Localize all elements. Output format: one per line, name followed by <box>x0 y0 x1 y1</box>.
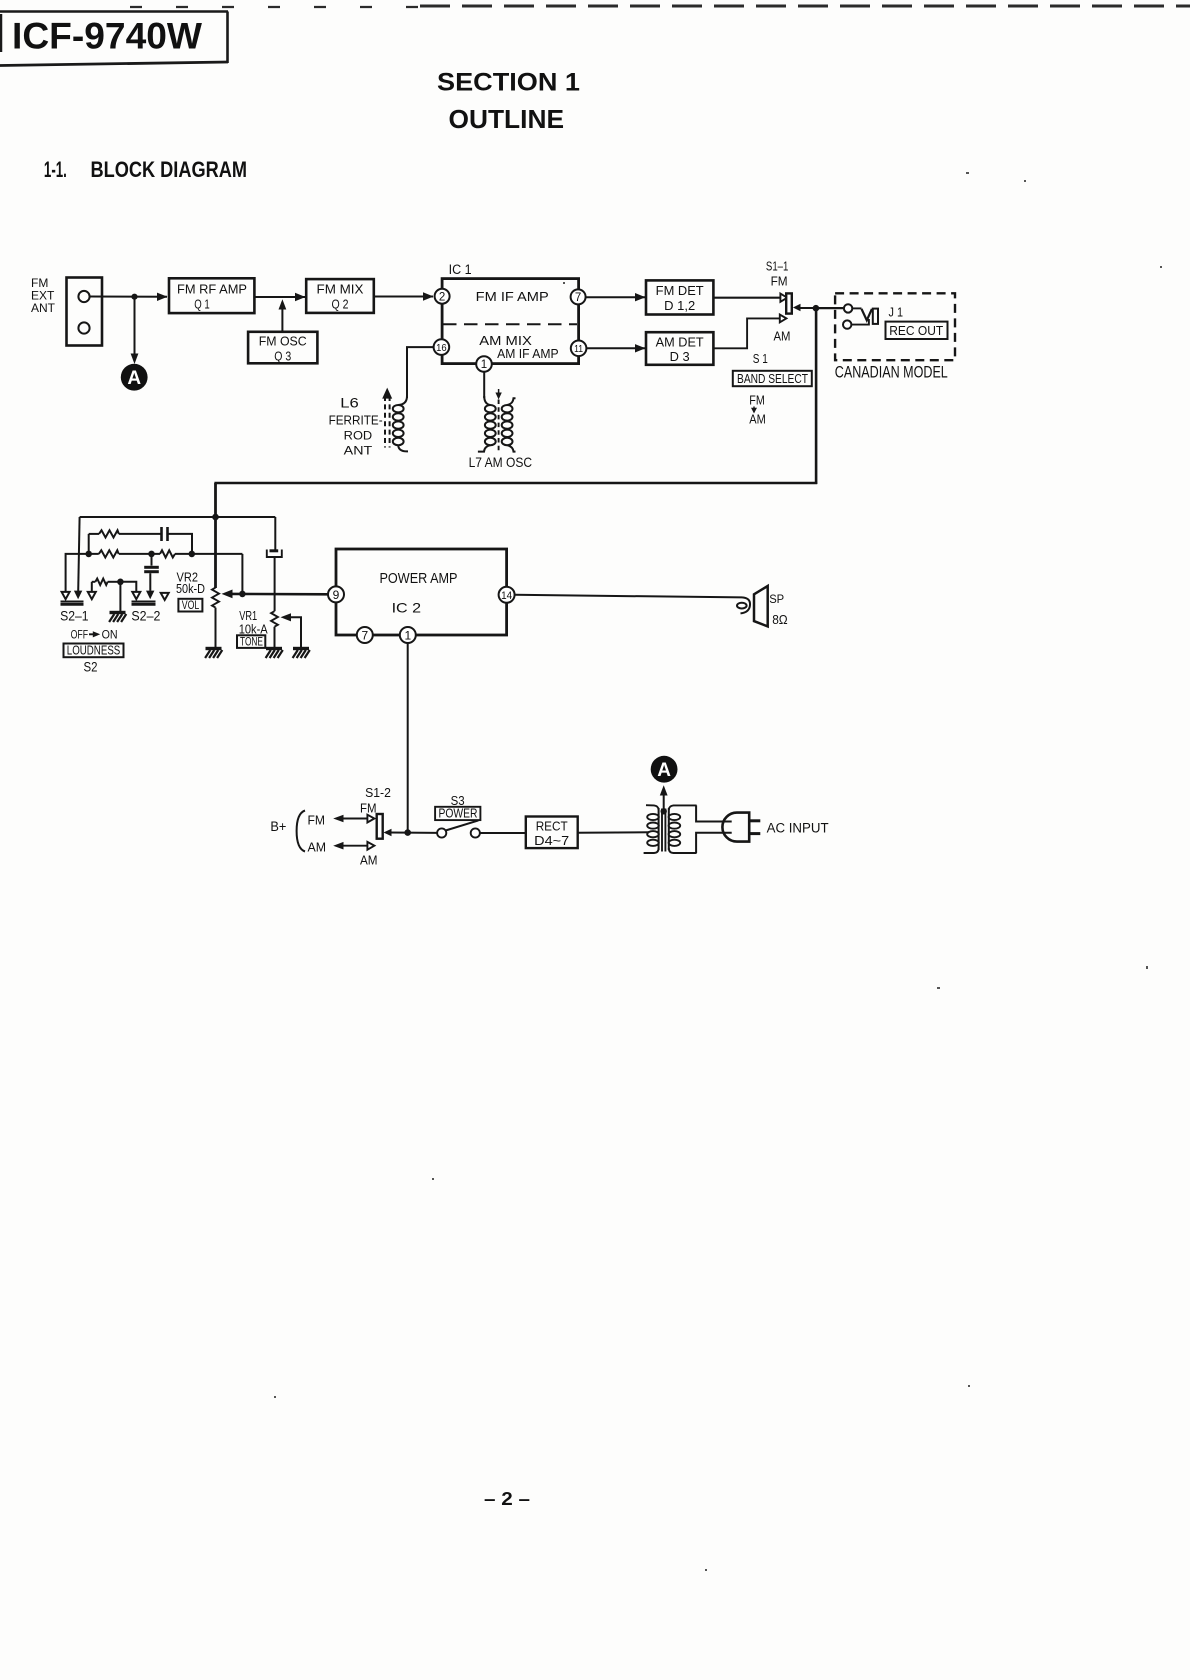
svg-text:J 1: J 1 <box>889 306 904 320</box>
ground (VR2) <box>205 649 222 659</box>
VR2 wiper arrow <box>222 590 233 599</box>
L7 tuning core (dashed) <box>498 400 500 452</box>
transformer L7 secondary <box>502 398 516 451</box>
svg-text:BLOCK DIAGRAM: BLOCK DIAGRAM <box>91 157 248 182</box>
switch S2-2 <box>132 591 169 605</box>
label BAND SELECT box <box>733 371 812 386</box>
svg-text:Q 2: Q 2 <box>332 298 349 312</box>
svg-text:REC OUT: REC OUT <box>889 324 943 338</box>
svg-text:ROD: ROD <box>344 429 373 443</box>
svg-text:FM IF AMP: FM IF AMP <box>476 289 549 304</box>
svg-text:IC 2: IC 2 <box>392 599 422 615</box>
ground (VR1) <box>266 649 283 659</box>
svg-text:FM: FM <box>360 801 377 816</box>
wire arrow to AM supply <box>333 842 367 850</box>
label TONE box <box>237 635 265 649</box>
wire row1 left segment <box>89 533 99 535</box>
title box ICF-9740W <box>0 12 228 66</box>
secondary output bracket <box>696 805 732 821</box>
transformer T primary winding <box>644 805 659 853</box>
J1 sleeve terminal circle <box>843 320 851 328</box>
svg-text:D 3: D 3 <box>670 350 690 364</box>
svg-text:FM DET: FM DET <box>656 284 704 298</box>
svg-text:LOUDNESS: LOUDNESS <box>67 644 121 658</box>
svg-text:S2–2: S2–2 <box>131 608 160 623</box>
svg-text:1: 1 <box>481 359 487 371</box>
svg-text:OFF: OFF <box>71 628 89 642</box>
svg-text:L7 AM OSC: L7 AM OSC <box>469 454 532 470</box>
wire bias node to ground <box>119 582 121 612</box>
svg-text:VOL: VOL <box>182 598 200 612</box>
svg-text:ANT: ANT <box>344 444 373 458</box>
wire VR1 to ground <box>274 627 276 647</box>
wire junction to J1 tip contact <box>816 307 844 309</box>
block FM OSC Q3 <box>248 332 317 364</box>
B+ brace <box>297 811 305 852</box>
svg-text:9: 9 <box>333 588 340 602</box>
svg-text:50k-D: 50k-D <box>176 582 205 596</box>
scan specks <box>274 172 1162 1571</box>
switch S2-1 <box>61 591 84 605</box>
wire row2 mid <box>119 553 160 555</box>
switch S1-1 slider <box>786 293 792 313</box>
wire S1-2 to S3 <box>390 832 437 834</box>
wire junction down to audio bus <box>815 308 818 484</box>
svg-text:L6: L6 <box>340 396 359 411</box>
block RECT D4~7 <box>526 817 578 849</box>
svg-text:BAND SELECT: BAND SELECT <box>737 372 808 386</box>
wire FM OSC injection arrow <box>279 299 287 332</box>
wire row1 to capacitor <box>119 533 161 535</box>
svg-text:11: 11 <box>574 343 583 355</box>
svg-text:ICF-9740W: ICF-9740W <box>12 16 202 57</box>
wire arrow to FM supply <box>333 815 367 823</box>
switch S3 <box>437 820 480 837</box>
svg-text:1-1.: 1-1. <box>44 157 67 182</box>
svg-text:B+: B+ <box>270 819 286 834</box>
IC2 pin 1 <box>400 627 416 643</box>
block FM DET D1,2 <box>646 280 713 314</box>
AC plug <box>722 813 760 842</box>
label POWER box <box>435 807 480 821</box>
svg-text:16: 16 <box>436 342 447 354</box>
S1-2 wiper arrow <box>384 829 392 837</box>
svg-text:S3: S3 <box>451 794 465 808</box>
potentiometer VR2 <box>212 588 219 608</box>
secondary output bracket lower <box>696 833 732 853</box>
svg-text:S 1: S 1 <box>753 352 768 366</box>
svg-text:POWER AMP: POWER AMP <box>380 570 458 587</box>
resistor (loudness R row1) <box>99 530 119 537</box>
IC1 pin 1 <box>476 356 492 372</box>
svg-text:FM: FM <box>771 274 788 288</box>
IC1 pin 16 <box>434 339 450 355</box>
jack J1 contacts <box>851 308 878 324</box>
resistor (S2 bias R) <box>95 579 107 585</box>
svg-text:FM RF AMP: FM RF AMP <box>177 282 247 296</box>
junction node transformer center tap <box>661 808 667 814</box>
svg-text:TONE: TONE <box>240 635 263 649</box>
resistor (loudness R row2 left) <box>99 550 119 557</box>
capacitor (coupling, polarized) <box>267 550 282 558</box>
label REC OUT box <box>886 322 948 339</box>
ground (loudness network) <box>109 613 126 623</box>
svg-text:7: 7 <box>361 628 368 642</box>
wire pin 11 to AM DET <box>586 344 645 352</box>
svg-text:CANADIAN MODEL: CANADIAN MODEL <box>835 363 948 381</box>
svg-text:8Ω: 8Ω <box>772 612 788 627</box>
VR1 wiper arrow <box>281 613 302 647</box>
wire IC2 pin 1 down to B+ node <box>407 643 409 833</box>
junction node bias <box>117 579 124 586</box>
op-amp IC2 POWER AMP box <box>336 549 507 635</box>
S1-1 AM contact triangle <box>780 315 787 323</box>
transformer core <box>662 809 665 852</box>
IC1 pin 7 <box>571 289 586 304</box>
svg-text:FM: FM <box>749 394 765 408</box>
svg-text:FM OSC: FM OSC <box>259 335 307 349</box>
svg-text:ON: ON <box>102 628 118 642</box>
wire RECT to transformer <box>578 831 649 834</box>
svg-text:ANT: ANT <box>31 301 56 315</box>
svg-text:Q 1: Q 1 <box>194 298 210 312</box>
junction node B+ feed <box>404 829 411 836</box>
S1-1 wiper arrow <box>793 304 801 312</box>
wire pin 1 to L7 <box>483 372 485 398</box>
S1-1 FM contact triangle <box>780 294 787 302</box>
svg-text:S1–1: S1–1 <box>766 259 789 273</box>
wire junction down to node A <box>131 297 139 364</box>
wire row1 right segment <box>168 534 193 554</box>
speaker SP <box>754 586 768 626</box>
wire tap down to wiper node <box>241 554 243 594</box>
label L6 FERRITE-ROD ANT <box>329 396 383 458</box>
junction node on antenna wire <box>131 294 137 300</box>
block FM MIX Q2 <box>306 279 374 313</box>
junction node row1/row2 right <box>189 551 196 558</box>
wire row1 up branch <box>88 534 90 554</box>
heading 1-1. BLOCK DIAGRAM <box>44 157 247 182</box>
label OFF-ON <box>71 628 118 642</box>
label FM to AM (band select positions) <box>749 394 766 427</box>
svg-text:FERRITE-: FERRITE- <box>329 414 383 428</box>
wire center tap to node A <box>660 785 668 811</box>
capacitor (loudness C2 vertical) <box>144 554 159 591</box>
svg-text:AM: AM <box>308 839 327 854</box>
svg-text:SP: SP <box>769 594 784 606</box>
junction node row2 center <box>148 551 155 558</box>
svg-text:RECT: RECT <box>536 820 568 834</box>
L6 rod arrow <box>382 388 392 399</box>
IC1 box <box>442 262 578 364</box>
wire top row down to coupling cap <box>274 517 276 550</box>
label VOL box <box>178 598 202 612</box>
S1-2 AM contact triangle <box>367 842 374 850</box>
svg-text:A: A <box>127 368 141 389</box>
junction node wiper/tap <box>239 591 246 598</box>
wire Q2 to IC1 pin 2 <box>374 292 434 300</box>
wire AM DET to S1-1 AM contact <box>713 318 779 348</box>
coil L6 <box>393 396 408 451</box>
wire VR2 wiper to IC2 pin 9 <box>230 593 329 596</box>
wire audio bus horizontal <box>214 482 817 485</box>
svg-text:AM IF AMP: AM IF AMP <box>497 346 558 361</box>
capacitor (loudness C row1) <box>162 527 168 541</box>
wire pin 16 to L6 <box>407 347 434 398</box>
transformer L7 primary <box>478 396 496 452</box>
svg-text:S1-2: S1-2 <box>365 786 391 800</box>
svg-text:2: 2 <box>439 291 445 303</box>
svg-text:IC 1: IC 1 <box>449 262 472 277</box>
svg-text:SECTION 1: SECTION 1 <box>437 69 580 97</box>
IC1 pin 2 <box>435 289 450 304</box>
switch S2-2 NC contact <box>88 582 96 599</box>
IC2 pin 14 <box>499 587 515 603</box>
antenna terminal box <box>67 278 103 346</box>
speaker voice coil loop <box>737 597 750 613</box>
svg-text:AM: AM <box>749 413 766 427</box>
CANADIAN MODEL dashed box <box>835 293 955 360</box>
wire cap to VR1 <box>274 557 276 611</box>
svg-text:Q 3: Q 3 <box>274 349 291 363</box>
block AM DET D3 <box>646 332 713 365</box>
svg-text:7: 7 <box>575 292 581 304</box>
svg-text:POWER: POWER <box>439 807 478 821</box>
S1-2 FM contact triangle <box>367 815 374 823</box>
junction node at band select output <box>813 305 820 312</box>
wire pin 7 to FM DET <box>586 293 646 301</box>
node A (power) <box>651 756 678 783</box>
wire loudness top row <box>80 516 276 518</box>
svg-text:D 1,2: D 1,2 <box>664 299 695 313</box>
svg-text:S2: S2 <box>84 660 98 675</box>
FM EXT ANT label <box>31 276 56 315</box>
svg-text:S2–1: S2–1 <box>60 608 89 623</box>
svg-text:FM MIX: FM MIX <box>317 282 365 296</box>
svg-text:D4~7: D4~7 <box>534 834 569 848</box>
wire FM DET to S1-1 FM contact <box>713 297 780 299</box>
svg-text:AC INPUT: AC INPUT <box>767 820 829 835</box>
switch S1-2 slider <box>377 814 383 839</box>
wire pin 14 to speaker <box>515 595 742 598</box>
wire antenna to Q1 <box>90 293 168 301</box>
L6 ferrite rod (dashed) <box>385 396 390 448</box>
wire audio bus down to volume control <box>214 483 217 588</box>
IC2 pin 7 <box>357 627 373 643</box>
node A (antenna circuit) <box>121 364 148 391</box>
wire top row to S2-1 moving contact <box>78 517 79 591</box>
IC2 pin 9 <box>328 586 344 602</box>
junction node audio bus / top row <box>212 514 219 521</box>
wire row2 right to volume tap <box>175 553 242 555</box>
junction node row1/row2 left <box>85 551 92 558</box>
wire bias node to S2-2 contact <box>120 582 136 592</box>
wire VR2 to ground <box>215 608 217 647</box>
wire Q1 to Q2 <box>254 293 305 301</box>
svg-text:OUTLINE: OUTLINE <box>449 104 565 134</box>
svg-text:AM DET: AM DET <box>656 335 704 349</box>
potentiometer VR1 <box>271 611 278 627</box>
ground (VR1 wiper) <box>293 649 310 659</box>
svg-text:AM: AM <box>360 853 378 868</box>
block FM RF AMP Q1 <box>169 278 254 313</box>
wire S3 to RECT <box>480 832 526 834</box>
svg-text:– 2 –: – 2 – <box>484 1489 530 1509</box>
svg-text:AM: AM <box>774 329 791 343</box>
svg-text:VR1: VR1 <box>239 609 257 623</box>
resistor (loudness R row2 right) <box>160 550 175 557</box>
wire S1-1 wiper to J1 junction <box>800 307 843 309</box>
wire row2 left to S2-1 fixed contact <box>66 554 99 592</box>
svg-text:1: 1 <box>404 628 411 642</box>
transformer T secondary winding <box>669 805 697 853</box>
L7 core arrow <box>495 389 501 400</box>
wire resistor to ground node <box>108 581 121 583</box>
svg-text:A: A <box>657 760 671 781</box>
svg-text:14: 14 <box>501 590 512 602</box>
IC1 pin 11 <box>571 341 587 357</box>
label LOUDNESS box <box>64 644 124 658</box>
J1 tip terminal circle <box>844 304 852 312</box>
svg-text:FM: FM <box>308 812 326 827</box>
